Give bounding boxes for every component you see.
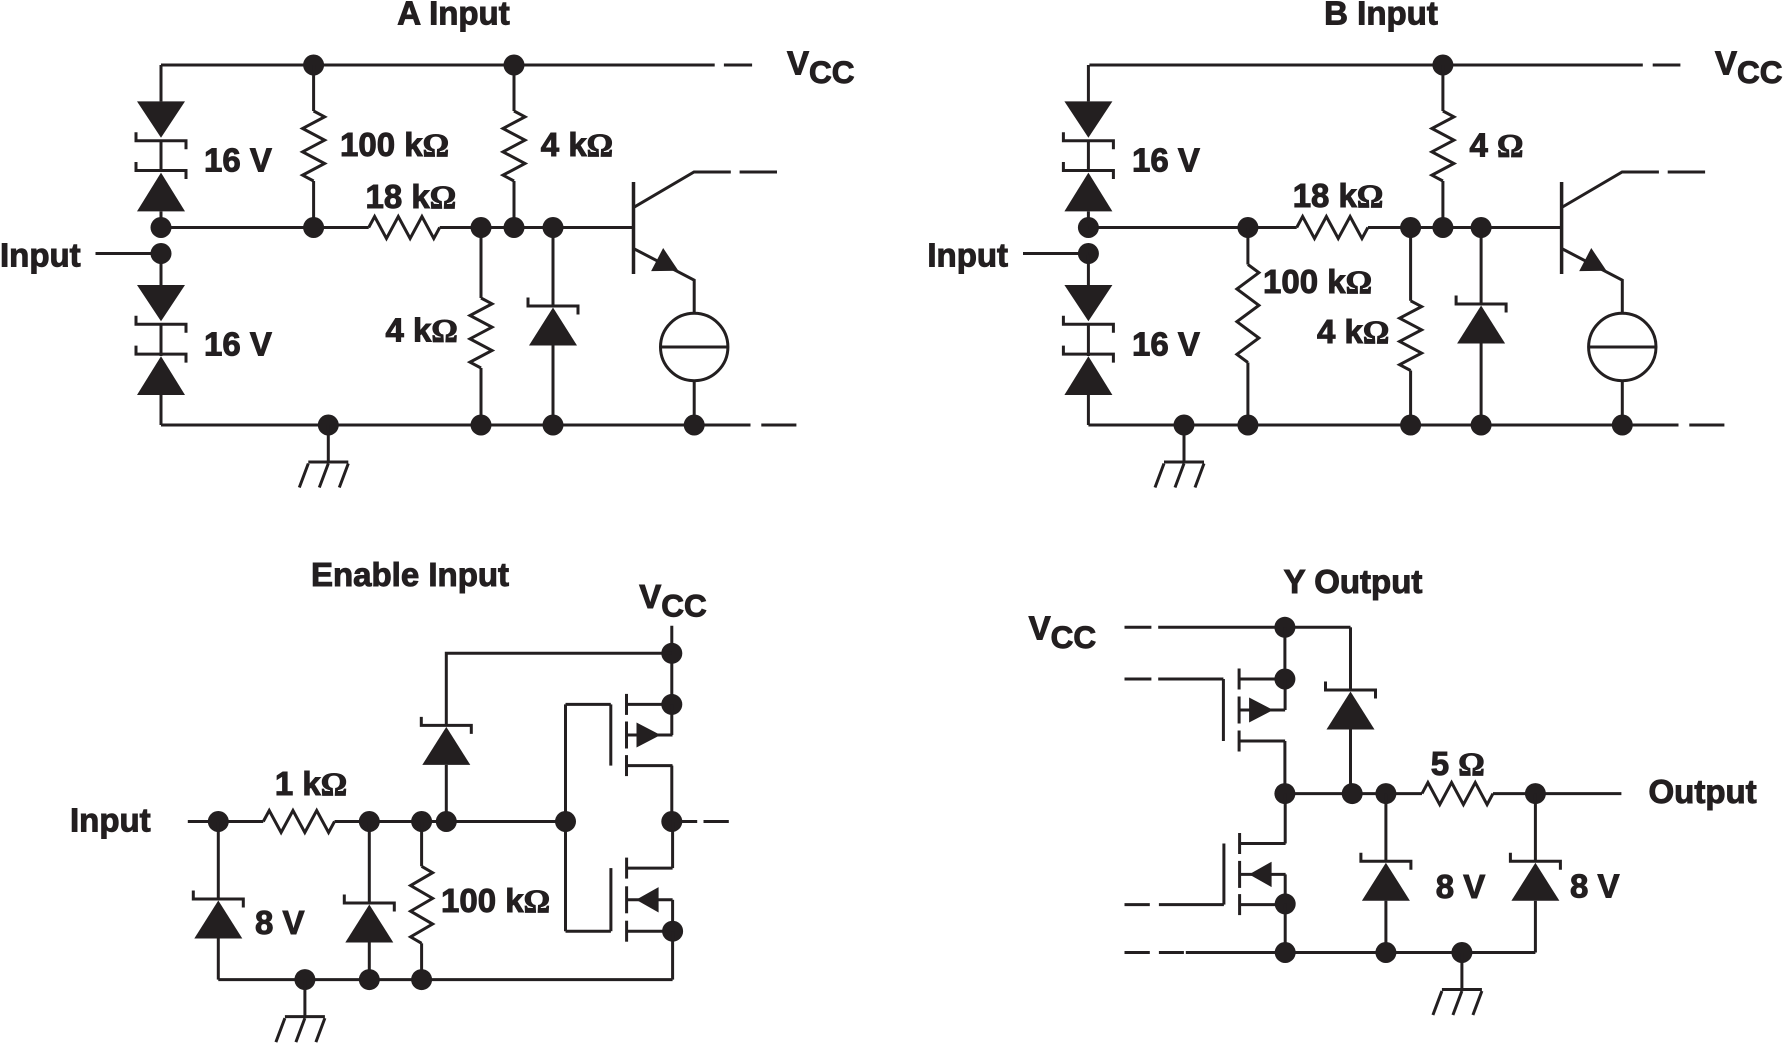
wire: Input lead (A): [96, 252, 162, 255]
transistor Q1 collector (A): [634, 172, 731, 208]
node: PMOS drain / Vcc (Enable): [661, 694, 682, 715]
node: ground rail / ground symbol (B): [1174, 415, 1195, 436]
node: middle row 4ohm junction (B): [1432, 217, 1453, 238]
wire: middle row to shunt zener (A): [552, 228, 555, 307]
zener diode D11 8V left (Enable): [193, 891, 243, 939]
node: ground rail NMOS junction (Y): [1275, 942, 1296, 963]
node: ground rail current source junction (A): [684, 415, 705, 436]
wire: through lower zener pair (A): [160, 324, 163, 356]
ground rail (Enable): [218, 978, 672, 981]
wire: shared gate line (Enable): [564, 704, 567, 931]
node: left middle-row junction (B): [1078, 217, 1099, 238]
wire: NMOS body tie (Y): [1284, 874, 1287, 904]
wire: output node to NMOS drain (Y): [1284, 794, 1287, 844]
wire: upper zener pair to input node (B): [1087, 212, 1090, 228]
wire: 100k resistor to middle row (A): [312, 181, 315, 228]
node: ground rail / ground symbol (Y): [1451, 942, 1472, 963]
node: PMOS drain (Y): [1274, 669, 1295, 690]
wire: shunt zener to ground rail (A): [552, 346, 555, 426]
wire: protection zener to input row (Enable): [445, 765, 448, 822]
wire: lower 4k resistor to ground rail (A): [480, 368, 483, 425]
ground rail lead-in dash 1 (Y): [1125, 951, 1150, 954]
current source I2 (B): [1589, 313, 1656, 380]
transistor Q2 base bar (B): [1560, 182, 1564, 274]
resistor 1 kOhm (Enable): [263, 811, 334, 833]
Vcc line (Y): [1158, 626, 1350, 629]
node: CMOS output node (Enable): [661, 811, 682, 832]
wire: middle zener to ground rail (Enable): [368, 943, 371, 980]
wire: shunt zener to ground rail (B): [1480, 344, 1483, 426]
node: left middle-row junction (A): [151, 217, 172, 238]
wire: NMOS source to ground rail (Y): [1284, 904, 1287, 953]
svg-text:100 kΩ: 100 kΩ: [340, 126, 449, 164]
wire: through lower zener pair (B): [1087, 324, 1090, 356]
svg-text:18 kΩ: 18 kΩ: [366, 178, 457, 216]
node: middle row zener junction (B): [1471, 217, 1492, 238]
node: middle row zener junction (A): [543, 217, 564, 238]
wire: Input lead (B): [1023, 252, 1088, 255]
Vcc lead-in dash (Y): [1125, 626, 1152, 629]
wire: 4k resistor to ground rail (B): [1409, 371, 1412, 426]
wire: output node to 8V zener 2 (Y): [1534, 794, 1537, 862]
wire: current source to ground rail (B): [1621, 381, 1624, 425]
node: input row 100k junction (Enable): [411, 811, 432, 832]
zener pair D3/D4 16V lower (A): [136, 285, 186, 395]
transistor NMOS M2 (Enable): [611, 858, 673, 942]
wire: output row to 8V zener 1 (Y): [1384, 794, 1387, 862]
wire: PMOS gate lead (Y): [1158, 678, 1223, 681]
wire: lower zener pair to ground rail (B): [1087, 395, 1090, 425]
node: ground rail zener junction (B): [1471, 415, 1492, 436]
svg-text:Enable Input: Enable Input: [311, 556, 509, 593]
wire: NMOS gate lead (Y): [1159, 903, 1224, 906]
node: ground rail 4k junction (B): [1400, 415, 1421, 436]
wire: top zener to output row (Y): [1349, 730, 1352, 794]
wire: middle row to 4k resistor (B): [1409, 228, 1412, 301]
node: ground rail 4k junction (A): [471, 415, 492, 436]
ground symbol (B): [1155, 425, 1204, 488]
svg-text:1 kΩ: 1 kΩ: [275, 765, 347, 803]
wire: 100k resistor to ground rail (B): [1246, 363, 1249, 426]
wire: Input lead (Enable): [188, 820, 219, 823]
node: Vcc/100k junction (A): [303, 55, 324, 76]
collector continuation dash (B): [1668, 171, 1705, 174]
zener diode D14 clamp to Vcc (Y): [1326, 682, 1376, 730]
svg-text:16 V: 16 V: [204, 142, 272, 179]
wire: Vcc to 4 ohm resistor (B): [1441, 65, 1444, 111]
output continuation dash (Enable): [704, 820, 729, 823]
wire: input node to lower zener pair (B): [1087, 254, 1090, 286]
node: ground rail mid-zener junction (Enable): [359, 969, 380, 990]
zener diode D13 to Vcc (Enable): [421, 717, 471, 765]
node: output node (Y): [1274, 783, 1295, 804]
emitter arrowhead (A): [651, 248, 684, 282]
wire: output row right (Y): [1493, 792, 1621, 795]
node: middle row 100k junction (B): [1237, 217, 1258, 238]
ground rail lead-in dash 2 (Y): [1159, 951, 1184, 954]
svg-text:8 V: 8 V: [255, 904, 305, 941]
wire: Vcc lead down (Enable): [670, 626, 673, 705]
Vcc rail (A): [161, 64, 715, 67]
svg-text:Y Output: Y Output: [1284, 563, 1423, 600]
transistor PMOS M3 (Y): [1223, 669, 1285, 752]
wire: current source to ground rail (A): [693, 381, 696, 425]
collector continuation dash (A): [740, 171, 777, 174]
svg-text:VCC: VCC: [1029, 610, 1097, 656]
node: NMOS source (Y): [1275, 893, 1296, 914]
ground symbol (Enable): [276, 980, 325, 1043]
wire: middle row to 100k resistor (B): [1246, 228, 1249, 265]
node: output row top-zener junction (Y): [1342, 783, 1363, 804]
resistor 18 kOhm (A): [369, 217, 440, 239]
node: ground rail current source junction (B): [1612, 415, 1633, 436]
svg-text:5 Ω: 5 Ω: [1431, 745, 1485, 783]
node: ground rail 100k junction (Enable): [411, 969, 432, 990]
svg-text:8 V: 8 V: [1436, 868, 1486, 905]
resistor 4 kOhm lower (A): [470, 298, 492, 368]
svg-text:16 V: 16 V: [204, 326, 272, 363]
svg-text:Input: Input: [927, 237, 1008, 274]
resistor 100 kOhm (B): [1237, 265, 1259, 363]
wire: left zener to ground rail (Enable): [217, 939, 220, 980]
node: input row gate junction (Enable): [555, 811, 576, 832]
transistor NMOS M4 (Y): [1224, 833, 1286, 915]
wire: upper zener pair to input node (A): [160, 212, 163, 228]
ground symbol (A): [299, 425, 348, 488]
node: output row right junction (Y): [1525, 783, 1546, 804]
wire: 100k resistor to ground rail (Enable): [420, 943, 423, 979]
node: middle row 4k junction (B): [1400, 217, 1421, 238]
node: Vcc/4k junction (A): [504, 55, 525, 76]
svg-text:8 V: 8 V: [1570, 868, 1620, 905]
ground rail (A): [161, 424, 751, 427]
svg-text:100 kΩ: 100 kΩ: [1263, 263, 1372, 301]
node: input connection (B): [1078, 243, 1099, 264]
wire: PMOS source to output node (Enable): [670, 766, 673, 822]
wire: through upper zener pair (A): [160, 140, 163, 172]
node: NMOS source (Enable): [662, 921, 683, 942]
node: middle row 4k-lower junction (A): [471, 217, 492, 238]
node: ground rail / ground symbol (Enable): [294, 969, 315, 990]
zener diode D10 shunt (B): [1456, 296, 1506, 344]
wire: input node to lower zener pair (A): [160, 254, 163, 286]
svg-text:16 V: 16 V: [1132, 142, 1200, 179]
wire: Vcc to protection zener branch (Enable): [446, 653, 672, 725]
wire: NMOS drain to output node (Enable): [671, 822, 674, 869]
zener pair D8/D9 16V lower (B): [1063, 285, 1113, 395]
svg-text:100 kΩ: 100 kΩ: [441, 882, 550, 920]
svg-text:16 V: 16 V: [1132, 326, 1200, 363]
wire: middle row right segment to transistor base (A): [440, 226, 634, 229]
zener diode D16 8V (Y): [1510, 853, 1560, 901]
zener diode D15 8V (Y): [1361, 853, 1411, 901]
svg-text:Input: Input: [0, 237, 81, 274]
Vcc rail continuation dash (A): [724, 64, 752, 67]
NMOS gate lead-in dash (Y): [1125, 903, 1150, 906]
wire: middle row to shunt zener (B): [1480, 228, 1483, 305]
zener diode D5 shunt (A): [528, 298, 578, 346]
wire: middle row right segment to transistor base (B): [1368, 226, 1562, 229]
wire: 8V zener 2 to ground rail (Y): [1534, 901, 1537, 953]
resistor 4 Ohm (B): [1432, 111, 1454, 181]
node: ground rail zener junction (A): [543, 415, 564, 436]
resistor 100 kOhm (Enable): [411, 866, 433, 943]
wire: input row to 1k resistor (Enable): [218, 820, 263, 823]
wire: Vcc to top zener (Y): [1349, 627, 1352, 690]
emitter arrowhead (B): [1579, 248, 1612, 282]
wire: output row left (Y): [1285, 792, 1422, 795]
svg-text:4 Ω: 4 Ω: [1470, 127, 1524, 165]
ground symbol (Y): [1433, 953, 1482, 1016]
ground rail continuation dash (B): [1689, 424, 1724, 427]
node: input row mid-zener junction (Enable): [359, 811, 380, 832]
wire: NMOS source to ground rail (Enable): [671, 931, 674, 979]
wire: PMOS body tie (Y): [1284, 679, 1287, 710]
ground rail continuation dash (A): [761, 424, 796, 427]
svg-text:4 kΩ: 4 kΩ: [386, 312, 458, 350]
node: ground rail 100k junction (B): [1237, 415, 1258, 436]
wire: 4 ohm resistor to middle row (B): [1441, 181, 1444, 228]
wire: lower zener pair to ground rail (A): [160, 395, 163, 425]
wire: Vcc rail to upper zener pair (A): [160, 65, 163, 101]
transistor Q2 emitter (B): [1562, 249, 1623, 314]
svg-text:Output: Output: [1649, 773, 1757, 810]
node: ground rail / ground symbol (A): [318, 415, 339, 436]
svg-text:B Input: B Input: [1324, 0, 1438, 32]
svg-text:VCC: VCC: [639, 578, 707, 624]
wire: 4k resistor to middle row (A): [513, 181, 516, 228]
node: middle row 4k-upper junction (A): [504, 217, 525, 238]
current source I1 (A): [661, 313, 728, 380]
wire: 8V zener 1 to ground rail (Y): [1384, 901, 1387, 953]
transistor Q1 emitter (A): [634, 249, 695, 314]
transistor Q2 collector (B): [1562, 172, 1659, 208]
wire: Vcc rail to upper zener pair (B): [1087, 65, 1090, 101]
node: middle row 100k junction (A): [303, 217, 324, 238]
node: input connection (A): [151, 243, 172, 264]
wire: PMOS body tie (Enable): [670, 704, 673, 735]
wire: input row to 100k resistor (Enable): [420, 822, 423, 867]
svg-text:VCC: VCC: [787, 45, 855, 91]
wire: gate line to PMOS gate (Enable): [566, 703, 611, 706]
wire: middle row left segment (A): [161, 226, 369, 229]
node: input/left-zener junction (Enable): [208, 811, 229, 832]
node: input row Vcc-zener junction (Enable): [436, 811, 457, 832]
resistor 18 kOhm (B): [1297, 217, 1368, 239]
wire: Vcc to 4k resistor (A): [513, 65, 516, 111]
wire: middle row to lower 4k resistor (A): [480, 228, 483, 299]
svg-text:VCC: VCC: [1715, 45, 1783, 91]
wire: NMOS body tie (Enable): [671, 900, 674, 931]
svg-text:A Input: A Input: [397, 0, 509, 32]
wire: PMOS source to output node (Y): [1283, 741, 1286, 794]
ground rail (B): [1088, 424, 1678, 427]
ground rail (Y): [1186, 951, 1536, 954]
wire: input node to left zener (Enable): [217, 822, 220, 900]
node: Vcc/4ohm junction (B): [1432, 55, 1453, 76]
zener pair D6/D7 16V upper (B): [1063, 101, 1113, 211]
transistor Q1 base bar (A): [632, 182, 636, 274]
node: output row 8V-zener junction (Y): [1375, 783, 1396, 804]
wire: output stub (Enable): [672, 820, 697, 823]
resistor 5 Ohm (Y): [1422, 783, 1493, 805]
wire: input row to gate line (Enable): [335, 820, 566, 823]
resistor 4 kOhm (B): [1400, 301, 1422, 371]
Vcc rail continuation dash (B): [1653, 64, 1681, 67]
PMOS gate lead-in dash (Y): [1125, 678, 1152, 681]
svg-text:4 kΩ: 4 kΩ: [541, 126, 613, 164]
op PMOS M1 (Enable): [611, 694, 673, 776]
resistor 4 kOhm upper (A): [503, 111, 525, 181]
wire: input row to middle zener (Enable): [368, 822, 371, 904]
wire: through upper zener pair (B): [1087, 140, 1090, 172]
svg-text:4 kΩ: 4 kΩ: [1317, 313, 1389, 351]
Vcc rail (B): [1089, 64, 1642, 67]
zener pair D1/D2 16V upper (A): [136, 101, 186, 211]
wire: Vcc to PMOS drain (Y): [1283, 627, 1286, 679]
node: ground rail zener junction (Y): [1375, 942, 1396, 963]
wire: Vcc to 100k resistor (A): [312, 65, 315, 111]
node: Vcc junction (Y): [1274, 617, 1295, 638]
resistor 100 kOhm (A): [303, 111, 325, 181]
svg-text:Input: Input: [70, 802, 151, 839]
wire: gate line to NMOS gate (Enable): [566, 930, 611, 933]
zener diode D12 8V middle (Enable): [344, 895, 394, 943]
wire: middle row left segment (B): [1088, 226, 1296, 229]
node: Vcc branch junction (Enable): [661, 643, 682, 664]
svg-text:18 kΩ: 18 kΩ: [1293, 177, 1384, 215]
